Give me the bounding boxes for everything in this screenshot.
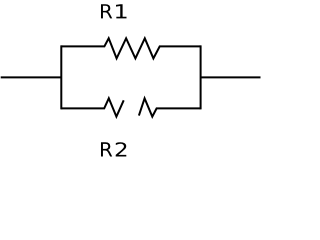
wire right lead	[201, 76, 261, 78]
resistor R2	[61, 98, 200, 116]
wire left branch vertical	[60, 45, 62, 109]
wire left lead	[1, 76, 62, 78]
label R1	[101, 4, 127, 18]
resistor R1	[61, 38, 200, 58]
wire right branch vertical	[200, 45, 202, 109]
label R2	[101, 142, 126, 156]
